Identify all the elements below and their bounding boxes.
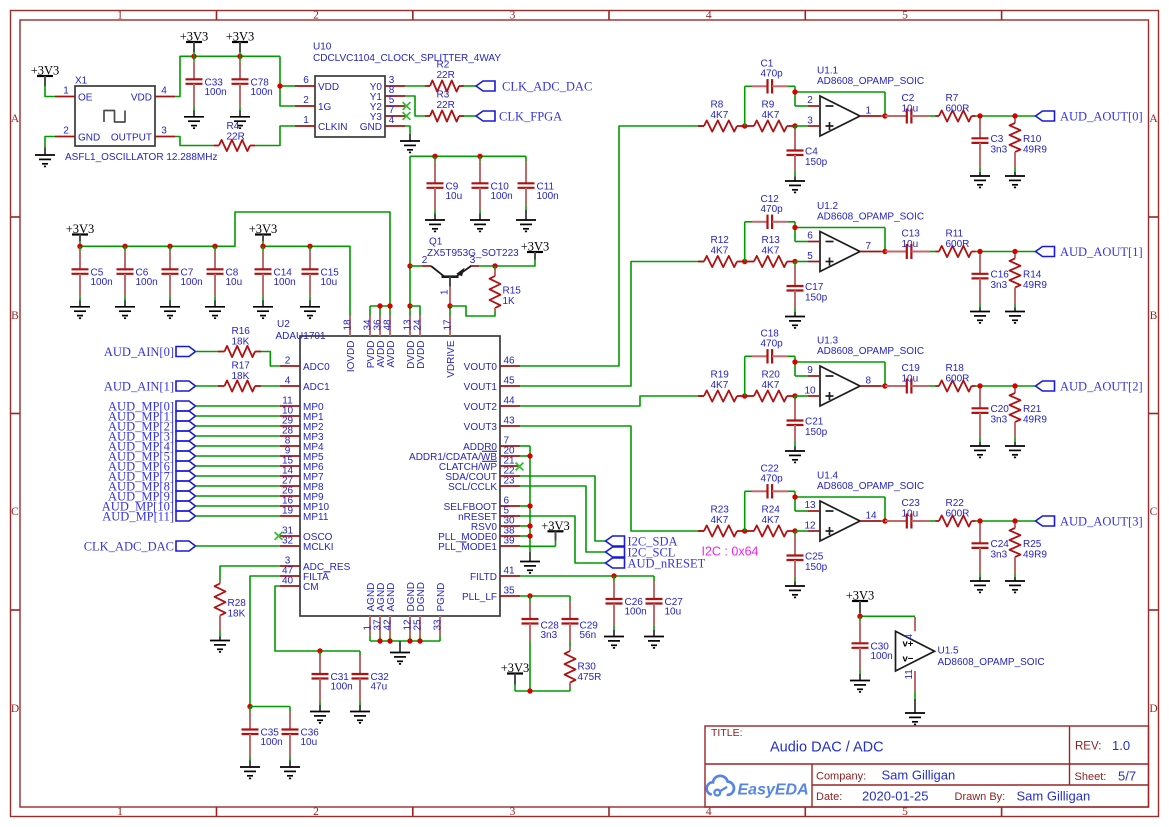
junction C8 [212, 244, 217, 249]
svg-text:R30: R30 [578, 662, 597, 673]
svg-text:150p: 150p [805, 293, 828, 304]
svg-text:1K: 1K [503, 296, 516, 307]
resistor R21 [1005, 389, 1047, 458]
net flag AUD_MP[7] [108, 470, 195, 484]
no-connect OSCO [275, 532, 283, 540]
junction AVDD48 [387, 303, 392, 308]
U1.4 pin 13 (-) [808, 510, 820, 512]
svg-text:1: 1 [117, 10, 123, 22]
svg-text:10u: 10u [902, 103, 919, 114]
svg-text:17: 17 [442, 319, 453, 331]
junction PLL_MODE0 [527, 533, 532, 538]
net flag AUD_MP[1] [108, 410, 195, 424]
svg-text:100n: 100n [251, 87, 273, 98]
svg-text:1: 1 [303, 115, 309, 126]
svg-text:R10: R10 [1023, 134, 1042, 145]
power +3V3 (PLL filter) [501, 661, 530, 685]
svg-text:3: 3 [807, 115, 813, 126]
svg-text:150p: 150p [805, 562, 828, 573]
svg-text:CLK_ADC_DAC: CLK_ADC_DAC [84, 540, 174, 554]
capacitor C4 [785, 126, 828, 192]
svg-text:CDCLVC1104_CLOCK_SPLITTER_4WAY: CDCLVC1104_CLOCK_SPLITTER_4WAY [313, 53, 501, 64]
op-amp U1.4 [804, 470, 924, 541]
svg-text:4: 4 [161, 86, 167, 97]
U1.2 pin 5 (+) [808, 261, 820, 263]
svg-text:100n: 100n [491, 191, 513, 202]
wire +3V3 rail right [263, 246, 350, 316]
clock splitter U10 [295, 42, 501, 138]
wire feedback C22 [745, 491, 885, 531]
net flag AUD_AIN[1] [104, 380, 196, 394]
U2 pin 28 MP3 [280, 435, 300, 437]
junction DVDD pins [407, 303, 412, 308]
junction C24 [977, 518, 982, 523]
junction feedback [792, 359, 797, 364]
svg-text:Company:: Company: [816, 771, 866, 783]
svg-text:600R: 600R [946, 508, 970, 519]
U2 pin 32 MCLKI [280, 545, 300, 547]
resistor R16 [218, 326, 261, 357]
svg-text:GND: GND [78, 133, 100, 144]
no-connect CLATCH/WP [516, 463, 524, 471]
U2 WB overline [482, 450, 497, 452]
capacitor C78 [230, 56, 273, 128]
U2 pin 6 SELFBOOT [500, 505, 520, 507]
svg-text:AUD_AOUT[1]: AUD_AOUT[1] [1060, 245, 1143, 259]
svg-text:Audio DAC / ADC: Audio DAC / ADC [770, 740, 884, 756]
net flag AUD_AOUT[2] [1036, 380, 1143, 394]
svg-text:EasyEDA: EasyEDA [738, 782, 809, 799]
svg-text:35: 35 [504, 586, 516, 597]
op-amp U1.1 [807, 65, 924, 136]
svg-text:C17: C17 [805, 282, 824, 293]
resistor R28 [215, 581, 247, 637]
svg-text:B: B [11, 310, 19, 322]
svg-text:39: 39 [504, 536, 516, 547]
svg-text:R15: R15 [503, 286, 522, 297]
svg-text:CLKIN: CLKIN [318, 122, 347, 133]
wire feedback C12 [745, 222, 885, 262]
svg-text:A: A [11, 113, 20, 125]
U10 pin 4 GND [385, 125, 405, 127]
svg-text:10u: 10u [321, 277, 338, 288]
svg-text:475R: 475R [578, 672, 602, 683]
svg-text:25: 25 [412, 619, 423, 631]
net flag CLK_FPGA [476, 110, 562, 124]
wire U10 GND [405, 126, 410, 134]
svg-text:C21: C21 [805, 417, 824, 428]
svg-text:D: D [11, 703, 19, 715]
wire +3V3 to X1 OE [45, 86, 55, 97]
capacitor C9 [425, 156, 462, 231]
junction C22 tap [742, 528, 747, 533]
resistor R22 [936, 498, 976, 527]
net flag AUD_MP[3] [108, 430, 195, 444]
wire R4 to U10 CLKIN [255, 126, 295, 146]
resistor R18 [936, 363, 976, 392]
wire +3V3 rail left [80, 212, 390, 306]
U1.4 pin 14 (out) [860, 520, 881, 522]
junction C9 [432, 154, 437, 159]
junction C16 [977, 249, 982, 254]
svg-text:R2: R2 [437, 60, 450, 71]
title block [705, 726, 1149, 807]
svg-text:12: 12 [804, 520, 816, 531]
svg-text:6: 6 [807, 231, 813, 242]
wire AUD_MP2 [196, 425, 281, 427]
resistor R2 [425, 60, 464, 92]
wire AUD_MP6 [196, 465, 281, 467]
net flag CLK_ADC_DAC (in) [84, 540, 196, 554]
net flag AUD_AOUT[0] [1036, 110, 1143, 124]
svg-text:OE: OE [78, 93, 93, 104]
X1 pin 2 GND [55, 136, 75, 138]
capacitor C16 [970, 254, 1009, 323]
no-connect Y2 [403, 102, 411, 110]
svg-text:32: 32 [282, 536, 294, 547]
wire +3V3 bottom rail [515, 684, 570, 691]
svg-text:VOUT1: VOUT1 [464, 382, 498, 393]
U2 pin 42 AGND [389, 616, 391, 636]
wire DVDD feed [410, 306, 420, 316]
svg-text:5: 5 [807, 251, 813, 262]
svg-text:2: 2 [285, 356, 291, 367]
net flag AUD_MP[2] [108, 420, 195, 434]
U2 pin 26 MP9 [280, 495, 300, 497]
svg-text:ADC1: ADC1 [303, 382, 330, 393]
junction R15 top [492, 263, 497, 268]
capacitor C2 [885, 93, 930, 124]
svg-text:3n3: 3n3 [991, 415, 1008, 426]
junction C33 rail [191, 54, 196, 59]
capacitor C30 [850, 616, 893, 692]
wire C28 to bottom rail [529, 641, 531, 691]
Q1 pin 3 [470, 265, 479, 267]
junction R10 [1012, 113, 1017, 118]
svg-text:5: 5 [902, 806, 908, 818]
wire ADDR0 group to ground [520, 446, 530, 552]
svg-text:7: 7 [866, 241, 872, 252]
wire AUD_MP9 [196, 495, 281, 497]
junction C5 [77, 244, 82, 249]
U1.1 pin 2 (-) [808, 105, 820, 107]
svg-text:11: 11 [904, 669, 915, 680]
U1.5 pin 11 V- [914, 671, 916, 691]
U2 pin 20 ADDR1/CDATA/WB [500, 455, 520, 457]
svg-text:D: D [1149, 703, 1157, 715]
resistor R20 [745, 370, 795, 402]
wire FILTA to C35 [250, 576, 280, 707]
net flag AUD_MP[5] [108, 450, 195, 464]
resistor R9 [745, 100, 795, 132]
junction AVDD36 [377, 303, 382, 308]
no-connect Y3 [403, 112, 411, 120]
svg-text:1: 1 [117, 806, 123, 818]
junction C20 [977, 383, 982, 388]
junction C1 tap [742, 123, 747, 128]
U10 pin 2 1G [295, 105, 315, 107]
svg-text:A: A [1149, 113, 1158, 125]
svg-text:U2: U2 [277, 319, 290, 330]
U2 pin 12 DGND [409, 616, 411, 636]
net flag AUD_MP[10] [102, 500, 196, 514]
U2 PLL_MODE1 overline [461, 541, 467, 543]
svg-text:1.0: 1.0 [1112, 738, 1130, 753]
svg-text:DGND: DGND [416, 582, 427, 611]
svg-text:33: 33 [432, 619, 443, 631]
svg-text:AUD_AOUT[2]: AUD_AOUT[2] [1060, 380, 1143, 394]
svg-text:3: 3 [510, 10, 516, 22]
U10 pin 1 CLKIN [295, 125, 315, 127]
svg-text:3: 3 [470, 255, 476, 266]
svg-text:CM: CM [303, 582, 319, 593]
junction C78 rail [237, 54, 242, 59]
capacitor C17 [785, 262, 828, 328]
svg-text:49R9: 49R9 [1023, 145, 1047, 156]
svg-text:C16: C16 [991, 270, 1010, 281]
wire to R22 [930, 520, 936, 522]
U2 pin 25 DGND [419, 616, 421, 636]
svg-text:2: 2 [303, 95, 309, 106]
svg-text:OUTPUT: OUTPUT [111, 133, 152, 144]
svg-text:GND: GND [360, 122, 382, 133]
wire VOUT3 to U1.4 [520, 426, 698, 531]
junction C21 tap [792, 393, 797, 398]
svg-text:3n3: 3n3 [541, 630, 558, 641]
svg-text:R21: R21 [1023, 404, 1042, 415]
svg-text:5/7: 5/7 [1118, 769, 1136, 784]
svg-text:100n: 100n [181, 277, 203, 288]
svg-text:VOUT3: VOUT3 [464, 422, 498, 433]
capacitor C7 [160, 246, 203, 318]
svg-text:6: 6 [303, 75, 309, 86]
svg-text:PGND: PGND [436, 583, 447, 612]
svg-text:VDD: VDD [131, 93, 152, 104]
svg-text:4K7: 4K7 [762, 110, 780, 121]
X1 square wave glyph [104, 111, 125, 123]
X1 pin 3 OUTPUT [155, 136, 175, 138]
U2 pin 10 MP1 [280, 415, 300, 417]
svg-text:13: 13 [804, 500, 816, 511]
capacitor C11 [516, 161, 559, 231]
svg-text:23: 23 [504, 476, 516, 487]
wire input to R12 [698, 261, 704, 263]
U2 pin 22 SDA/COUT [500, 475, 520, 477]
wire VOUT2 to U1.3 [520, 396, 698, 406]
svg-text:1: 1 [439, 289, 450, 295]
junction Q1 base node [447, 303, 452, 308]
wire to R11 [930, 251, 936, 253]
svg-text:10u: 10u [301, 737, 318, 748]
U2 pin 8 MP4 [280, 445, 300, 447]
wire AUD_MP7 [196, 475, 281, 477]
net flag AUD_MP[0] [108, 400, 195, 414]
svg-text:AUD_AOUT[0]: AUD_AOUT[0] [1060, 110, 1143, 124]
capacitor C20 [970, 389, 1009, 458]
power +3V3 (C78) [226, 30, 255, 57]
wire PVDD/AVDD feed [370, 306, 390, 316]
U1.3 pin 8 (out) [860, 385, 881, 387]
transistor Q1 [410, 237, 519, 304]
U1.3 pin 9 (-) [808, 375, 820, 377]
wire PLL_LF to C28/C29 [520, 595, 570, 597]
svg-text:42: 42 [382, 619, 393, 631]
capacitor C31 [310, 651, 353, 723]
U2 pin 44 VOUT2 [500, 405, 520, 407]
svg-text:ADAU1701: ADAU1701 [276, 331, 326, 342]
junction C6 [122, 244, 127, 249]
svg-text:R25: R25 [1023, 539, 1042, 550]
power +3V3 (U1.5) [846, 589, 875, 614]
junction C12 tap [742, 259, 747, 264]
resistor R24 [745, 505, 795, 537]
capacitor C8 [205, 246, 242, 318]
junction gnd bus [417, 638, 422, 643]
resistor R25 [1005, 524, 1047, 593]
capacitor C27 [644, 576, 683, 648]
ground (X1 pin2) [35, 148, 55, 167]
op-amp U1.5 (power) [896, 617, 1045, 691]
U2 pin 41 FILTD [500, 575, 520, 577]
wire base node to R15 [450, 306, 495, 316]
svg-text:Sam Gilligan: Sam Gilligan [882, 768, 956, 783]
capacitor C3 [970, 119, 1008, 188]
svg-text:49R9: 49R9 [1023, 280, 1047, 291]
capacitor C1 [752, 59, 788, 94]
U2 pin 38 PLL_MODE0 [500, 535, 520, 537]
wire C35 to C36 [250, 706, 290, 708]
svg-text:PLL_LF: PLL_LF [462, 592, 497, 603]
junction R14 [1012, 249, 1017, 254]
U2 pin 27 MP8 [280, 485, 300, 487]
svg-text:5: 5 [902, 10, 908, 22]
U2 pin 21 CLATCH/WP [500, 465, 520, 467]
wire AUD_MP0 [196, 405, 281, 407]
resistor R11 [936, 229, 976, 258]
wire Q1 collector to +3V3 [479, 259, 535, 266]
wire feedback C1 [745, 86, 885, 126]
wire input to R23 [698, 530, 704, 532]
net flag AUD_MP[9] [108, 490, 195, 504]
svg-text:41: 41 [504, 566, 516, 577]
X1 pin 4 VDD [155, 96, 175, 98]
svg-text:43: 43 [504, 416, 516, 427]
resistor R8 [698, 100, 745, 132]
svg-text:22R: 22R [227, 132, 245, 143]
svg-text:U1.2: U1.2 [817, 201, 839, 212]
svg-text:R14: R14 [1023, 270, 1042, 281]
U1.4 pin 12 (+) [808, 530, 820, 532]
junction R25 [1012, 518, 1017, 523]
svg-text:PLL_MODE1: PLL_MODE1 [438, 542, 497, 553]
svg-text:R3: R3 [437, 90, 450, 101]
capacitor C23 [885, 498, 930, 529]
svg-text:49R9: 49R9 [1023, 550, 1047, 561]
svg-text:AD8608_OPAMP_SOIC: AD8608_OPAMP_SOIC [817, 346, 924, 357]
svg-text:10u: 10u [665, 607, 682, 618]
junction C14 [260, 244, 265, 249]
junction Q1 collector [407, 263, 412, 268]
U1.2 pin 7 (out) [860, 251, 881, 253]
power +3V3 (C33) [180, 30, 209, 57]
junction C28 [527, 593, 532, 598]
svg-text:3n3: 3n3 [991, 280, 1008, 291]
svg-text:100n: 100n [331, 682, 353, 693]
wire AUD_MP5 [196, 455, 281, 457]
wire X1 GND [45, 137, 55, 148]
U2 pin 16 MP10 [280, 505, 300, 507]
junction U10 VDD [277, 83, 282, 88]
svg-text:AUD_MP[11]: AUD_MP[11] [102, 510, 174, 524]
power +3V3 (Q1) [521, 240, 550, 260]
svg-text:100n: 100n [625, 607, 647, 618]
wire U2 ground bus [370, 636, 440, 641]
capacitor C22 [752, 464, 788, 499]
svg-text:MP11: MP11 [303, 512, 329, 523]
EasyEDA logo [707, 776, 809, 799]
junction C30 [857, 614, 862, 619]
U2 pin 36 AVDD [379, 316, 381, 336]
svg-text:R17: R17 [232, 361, 251, 372]
wire FILTD to C26/C27 [520, 575, 654, 577]
wire Y0 to R2 [405, 85, 425, 87]
U10 pin 5 Y2 [385, 105, 405, 107]
junction C25 tap [792, 528, 797, 533]
svg-text:U1.5: U1.5 [938, 646, 960, 657]
svg-text:18K: 18K [232, 337, 250, 348]
net flag AUD_MP[4] [108, 440, 195, 454]
svg-text:VOUT2: VOUT2 [464, 402, 498, 413]
svg-text:100n: 100n [871, 651, 893, 662]
wire SDA to I2C_SDA [520, 476, 606, 541]
capacitor C19 [885, 363, 930, 394]
svg-text:1: 1 [63, 86, 69, 97]
svg-text:C: C [11, 506, 19, 518]
U2 pin 1 AGND [369, 616, 371, 636]
power +3V3 (PLL_MODE1) [541, 519, 570, 541]
U2 pin 9 MP5 [280, 455, 300, 457]
svg-text:470p: 470p [761, 339, 784, 350]
Q1 body [442, 275, 459, 278]
resistor R15 [490, 266, 522, 312]
wire Q1 base to VDRIVE [449, 303, 451, 316]
wire AUD_MP4 [196, 445, 281, 447]
net flag I2C_SCL [606, 545, 676, 559]
junction C17 tap [792, 259, 797, 264]
U2 pin 29 MP2 [280, 425, 300, 427]
wire X1 VDD to +3V3 rail [175, 56, 280, 96]
svg-text:3n3: 3n3 [991, 145, 1008, 156]
DSP U2 ADAU1701 [276, 316, 521, 636]
net flag I2C_SDA [606, 534, 678, 548]
svg-text:IOVDD: IOVDD [346, 341, 357, 373]
U2 pin 37 AGND [379, 616, 381, 636]
wire to R18 [930, 385, 936, 387]
svg-text:4K7: 4K7 [711, 245, 729, 256]
capacitor C32 [350, 651, 389, 723]
svg-text:100n: 100n [205, 87, 227, 98]
U2 pin 46 VOUT0 [500, 365, 520, 367]
U2 pin 43 VOUT3 [500, 425, 520, 427]
U2 pin 48 AVDD [389, 316, 391, 336]
junction feedback [792, 89, 797, 94]
svg-text:470p: 470p [761, 69, 784, 80]
ground (U2 bus) [390, 641, 410, 664]
svg-text:4K7: 4K7 [762, 515, 780, 526]
svg-text:C4: C4 [805, 147, 818, 158]
power +3V3 (C5 rail) [66, 222, 95, 246]
svg-text:AUD_AIN[0]: AUD_AIN[0] [104, 345, 174, 359]
